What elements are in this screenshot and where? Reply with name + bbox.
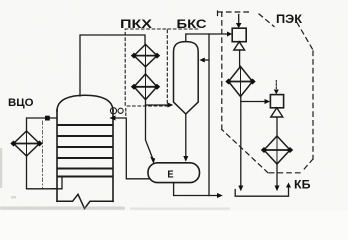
wire reflux return E to column	[116, 118, 150, 179]
node X2 side dots	[261, 147, 293, 153]
wire PKH-B branch to drum BKS	[146, 104, 169, 106]
arrow reflux into column	[109, 116, 115, 121]
column K shell	[57, 95, 113, 208]
valve V1 actuator stem arrow	[238, 15, 240, 24]
column trays	[58, 125, 113, 177]
arrow into vessel E second nozzle	[183, 156, 188, 162]
arrow into valve V1 body	[227, 32, 232, 37]
wire top pipe 2 (BKS head to valve V1)	[187, 33, 228, 35]
wire long drop line to bottom header	[208, 34, 210, 196]
arrow X1 line down tip	[238, 186, 243, 192]
wire overhead vapor pipe (column top to PKH)	[80, 35, 145, 96]
nozzle circle 1	[110, 108, 116, 114]
wire V1 to exchanger X1	[239, 50, 241, 67]
column internal downcomer pipe	[52, 177, 62, 189]
nozzle circle 2	[118, 108, 123, 113]
valve V1	[232, 28, 246, 50]
scan smudge bottom	[0, 148, 230, 210]
heat exchanger PKH-A	[134, 44, 157, 66]
heat exchanger X1	[229, 67, 253, 97]
arrow E line tip	[217, 193, 223, 198]
arrow into vessel E left nozzle	[150, 157, 155, 164]
wire PKH-B outlet down to reflux drum E	[146, 100, 153, 159]
svg-text:ПКХ: ПКХ	[120, 17, 152, 31]
wire V2 to exchanger X2	[276, 117, 278, 136]
valve V2 actuator stem arrow	[275, 81, 277, 90]
vessel BKS shell	[174, 42, 199, 114]
arrow into BKS right wall	[199, 58, 204, 63]
wire X2 outlet down	[276, 164, 278, 187]
svg-text:ВЦО: ВЦО	[8, 97, 34, 109]
node PKH-A side dots	[131, 53, 160, 59]
dashed line over BKS drum	[168, 28, 200, 30]
heat exchanger VCO	[14, 131, 40, 156]
KB collection header	[235, 187, 288, 197]
arrow into BKS left wall	[168, 103, 174, 108]
wire BKS top stem	[185, 34, 187, 42]
arrow into valve V2 body	[265, 99, 271, 104]
dashed PKH battery-limit box lower dashes	[125, 109, 127, 116]
svg-text:Е: Е	[167, 169, 174, 180]
wire branch into BKS right wall	[205, 59, 210, 61]
vessel E (reflux drum)	[148, 163, 200, 183]
wire BKS bottom to vessel E	[185, 114, 187, 158]
node junction square	[45, 116, 50, 121]
svg-text:КБ: КБ	[294, 180, 311, 192]
wire X1 outlet down	[240, 97, 242, 187]
heat exchanger PKH-B	[134, 74, 157, 100]
valve V2	[270, 95, 283, 117]
dashed PKH battery-limit box	[125, 29, 167, 106]
arrow KB up tip	[286, 183, 291, 188]
svg-text:БКС: БКС	[177, 17, 207, 31]
node VCO side dots	[10, 141, 42, 147]
wire PKH A-B	[145, 67, 147, 74]
heat exchanger X2	[264, 136, 290, 164]
svg-text:ПЭК: ПЭК	[276, 14, 303, 26]
wire branch X1 to valve V2	[241, 101, 265, 103]
node PKH-B side dots	[131, 84, 160, 90]
wire VCO draw-off from column	[27, 118, 58, 131]
dashed PEK battery limit boundary	[218, 11, 314, 173]
node X1 side dots	[225, 79, 255, 85]
wire E bottoms line to PEK boundary	[174, 183, 218, 196]
dash-dot guide line	[42, 121, 44, 188]
wire VCO return to column	[27, 156, 57, 189]
arrow X2 line down tip	[275, 186, 280, 192]
